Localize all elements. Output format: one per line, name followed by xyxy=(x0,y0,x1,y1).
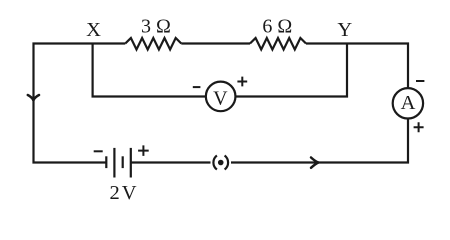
svg-text:Y: Y xyxy=(337,19,352,41)
svg-text:6 Ω: 6 Ω xyxy=(262,16,292,38)
svg-text:A: A xyxy=(401,92,416,114)
svg-text:X: X xyxy=(86,19,101,41)
svg-text:3 Ω: 3 Ω xyxy=(141,16,171,38)
svg-text:V: V xyxy=(213,87,228,109)
svg-text:2: 2 xyxy=(109,182,119,204)
svg-text:V: V xyxy=(122,182,137,204)
